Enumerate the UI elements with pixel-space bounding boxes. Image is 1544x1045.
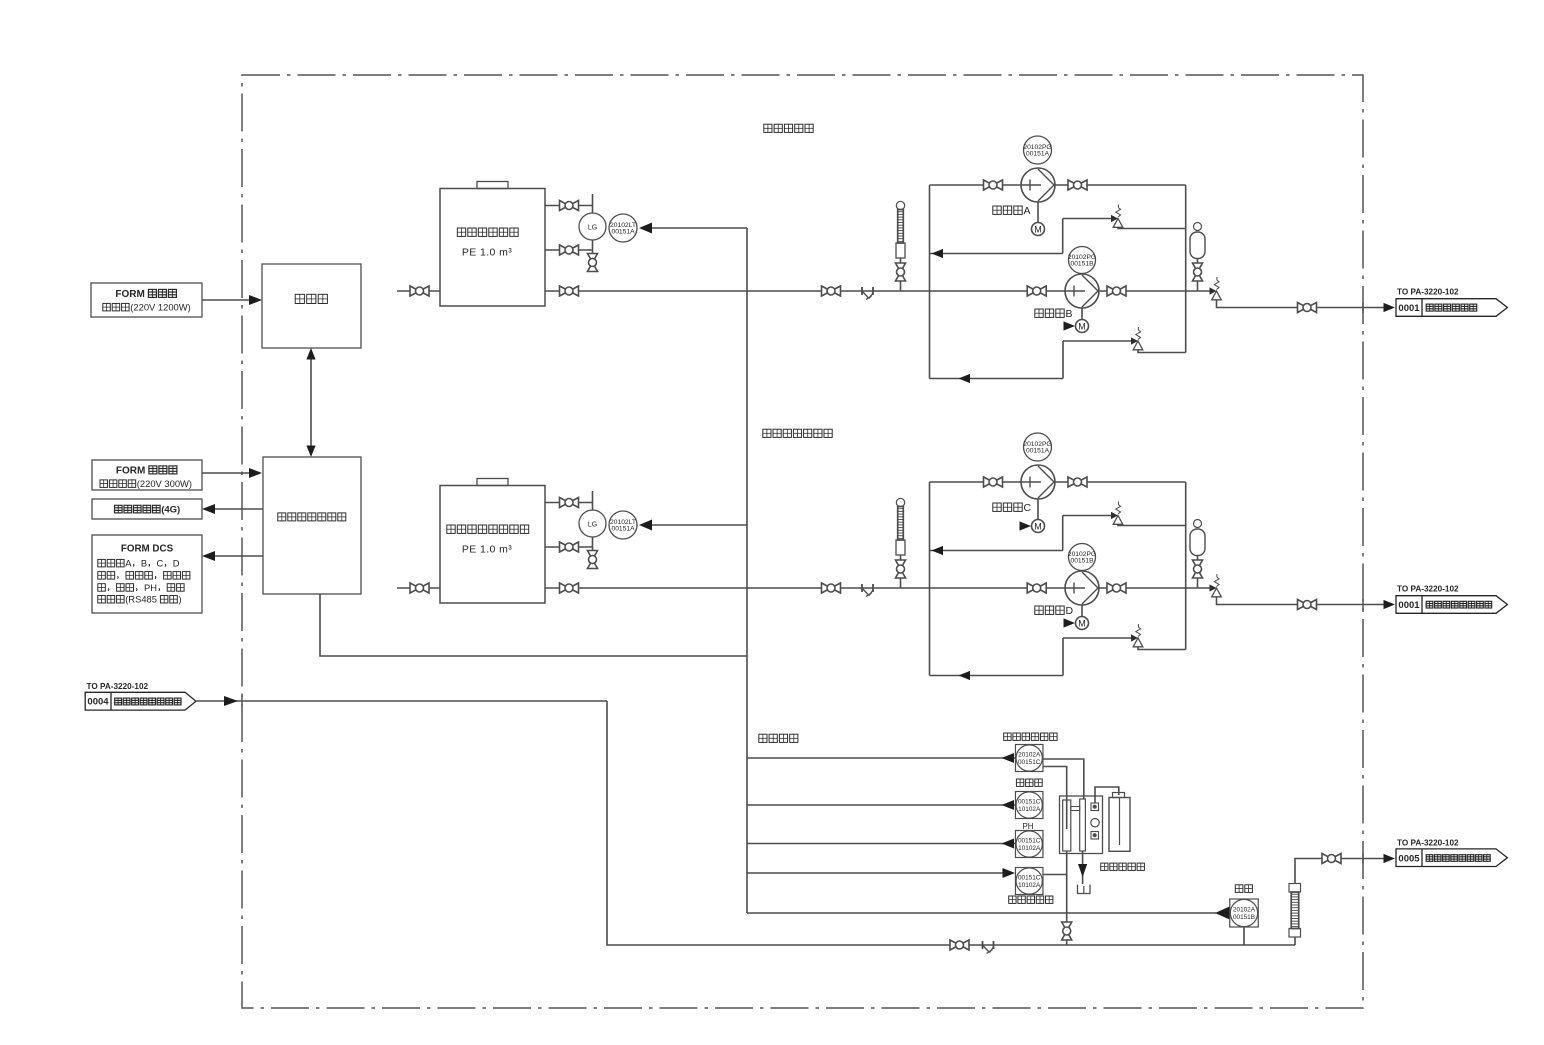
pump metering D [loop CD] xyxy=(1065,571,1099,605)
arrow to flag 0005 xyxy=(1384,854,1396,863)
pump metering B [loop AB] xyxy=(1065,274,1099,308)
flag 0004 circulating water inlet xyxy=(85,692,196,710)
wire relief1 inlet [loop AB] xyxy=(1063,218,1111,220)
label pump1 加药泵C [loop CD] xyxy=(993,503,1001,511)
label online monitoring section xyxy=(759,734,767,742)
valve tank fill (antiscalant) xyxy=(410,286,420,296)
instrument pressure gauge 20102PG lower [loop AB] xyxy=(1069,247,1096,274)
svg-text:00151B: 00151B xyxy=(1233,914,1255,921)
arrow to flag xyxy=(1384,600,1396,609)
wire relief1 return [loop CD] xyxy=(930,550,1063,552)
wire pump2 motor link [loop AB] xyxy=(1081,308,1083,320)
wire relief1 return drop [loop CD] xyxy=(1062,516,1064,551)
wire pump suction riser [loop AB] xyxy=(929,185,931,379)
wire relief1 outlet [loop AB] xyxy=(1118,227,1186,228)
svg-text:A: A xyxy=(125,558,132,569)
svg-text:): ) xyxy=(179,594,182,605)
valve tank port2 (corrosion inhibitor) xyxy=(560,542,570,552)
tank fill stub (corrosion inhibitor) xyxy=(397,587,440,589)
relief valve pump2 [loop AB] xyxy=(1131,337,1138,344)
wire main power arrow xyxy=(202,299,250,301)
pulsation dampener [loop AB] xyxy=(1194,223,1202,231)
flag 0001 阻垢剂 xyxy=(1396,299,1507,317)
wire relief2 inlet [loop CD] xyxy=(1063,637,1131,639)
wire pump2 motor link [loop CD] xyxy=(1081,605,1083,617)
wire cloud platform arrow xyxy=(214,508,263,510)
label conductivity xyxy=(1016,779,1023,786)
svg-text:00151A: 00151A xyxy=(1026,151,1050,158)
valve tank fill (corrosion inhibitor) xyxy=(410,583,420,593)
svg-text:0005: 0005 xyxy=(1398,853,1420,864)
wire inlet down leg xyxy=(607,701,1295,945)
valve main header A/B xyxy=(822,286,832,296)
label polymer analyzer xyxy=(1004,733,1011,740)
tank fill stub (antiscalant) xyxy=(397,290,440,292)
valve pump1 suction [loop AB] xyxy=(984,180,994,190)
svg-text:00151A: 00151A xyxy=(1026,448,1050,455)
wire rotameter bottom xyxy=(1294,937,1296,945)
instrument pressure gauge 20102PG lower [loop CD] xyxy=(1069,544,1096,571)
tank body T1 (antiscalant) xyxy=(440,189,545,307)
relief/back-pressure valve outlet xyxy=(1210,287,1217,294)
wire sq1 to right slot xyxy=(1043,759,1084,799)
svg-text:TO PA-3220-102: TO PA-3220-102 xyxy=(1397,287,1459,296)
wire relief2 outlet [loop CD] xyxy=(1138,647,1186,650)
wire signal header vertical xyxy=(746,228,748,913)
wire pump1 motor link [loop AB] xyxy=(1037,202,1039,223)
wire relief1 return drop [loop AB] xyxy=(1062,219,1064,254)
wire pump1 motor link [loop CD] xyxy=(1037,499,1039,520)
valve outlet line xyxy=(1298,303,1308,313)
valve outlet line xyxy=(1298,600,1308,610)
wire sample outlet line xyxy=(1295,859,1384,884)
relief/back-pressure valve outlet xyxy=(1210,584,1217,591)
svg-text:00151B: 00151B xyxy=(1070,261,1094,268)
svg-text:00151B: 00151B xyxy=(1070,558,1094,565)
wire sq4 to drop xyxy=(1043,874,1067,876)
dash-dot plot boundary xyxy=(242,75,1363,1008)
wire relief2 return [loop CD] xyxy=(930,675,1064,677)
wire tank port1 (antiscalant) xyxy=(545,205,593,207)
valve tank drain (corrosion inhibitor) xyxy=(588,551,598,560)
wire discharge right riser [loop AB] xyxy=(1185,185,1187,353)
wire outlet step xyxy=(1217,597,1385,605)
svg-text:M: M xyxy=(1078,321,1086,331)
calibration column [loop CD] xyxy=(896,498,904,506)
valve self-clean drop xyxy=(1062,922,1072,931)
svg-text:C: C xyxy=(157,558,164,569)
wire main header A/B xyxy=(578,290,1210,292)
svg-text:LG: LG xyxy=(588,225,597,232)
rotameter flow indicator xyxy=(1289,884,1301,893)
panel icon square lower xyxy=(1091,832,1099,840)
svg-text:00151C: 00151C xyxy=(1018,875,1041,882)
svg-text:B: B xyxy=(1066,308,1073,320)
panel connector bar xyxy=(1071,807,1080,811)
box dianKongXiang (electric control box) xyxy=(262,264,361,348)
wire sample water inlet line xyxy=(196,700,607,702)
wire relief2 outlet [loop AB] xyxy=(1138,350,1186,353)
wire relief1 inlet [loop CD] xyxy=(1063,515,1111,517)
svg-text:00151A: 00151A xyxy=(611,229,635,236)
tank name (antiscalant) xyxy=(457,228,465,236)
svg-text:TO PA-3220-102: TO PA-3220-102 xyxy=(87,682,149,691)
wire turbidity line xyxy=(747,912,1216,914)
label pump1 加药泵A [loop AB] xyxy=(993,206,1001,214)
wire self-clean drop to sample line xyxy=(1066,851,1068,945)
panel right flow cell xyxy=(1080,799,1086,851)
svg-text:FORM DCS: FORM DCS xyxy=(121,544,174,555)
wire relief1 outlet [loop CD] xyxy=(1118,524,1186,525)
wire turbidity drop xyxy=(1243,927,1245,945)
y-strainer main header A/B xyxy=(861,287,863,295)
valve sample line xyxy=(950,940,960,950)
motor M pump2 [loop AB] xyxy=(1076,320,1089,333)
valve sample outlet xyxy=(1322,854,1332,864)
valve pump2 suction [loop CD] xyxy=(1027,583,1037,593)
wire outlet step xyxy=(1217,300,1385,308)
wire pump top line [loop AB] xyxy=(930,184,1186,186)
svg-text:10102A: 10102A xyxy=(1018,806,1041,813)
instrument pressure gauge 20102PG upper [loop CD] xyxy=(1024,433,1052,461)
tank body T2 (corrosion inhibitor) xyxy=(440,486,545,604)
tank nozzle (corrosion inhibitor) xyxy=(477,479,508,486)
panel icon square upper xyxy=(1091,803,1099,811)
svg-text:PE 1.0 m³: PE 1.0 m³ xyxy=(462,544,512,556)
wire pump top line [loop CD] xyxy=(930,481,1186,483)
wire tank port1 (corrosion inhibitor) xyxy=(545,502,593,504)
wire tank port2 (antiscalant) xyxy=(545,249,593,251)
relief valve pump1 [loop AB] xyxy=(1111,215,1118,222)
label pump2 加药泵D [loop CD] xyxy=(1035,606,1043,614)
svg-text:0001: 0001 xyxy=(1398,600,1420,611)
wire LG vent (corrosion inhibitor) xyxy=(592,491,594,510)
svg-text:M: M xyxy=(1034,521,1042,531)
arrow drain down xyxy=(1078,864,1087,877)
pump metering A [loop AB] xyxy=(1021,168,1055,202)
box FORM dianKongShi main power xyxy=(91,283,202,317)
wire analyzer line 1 xyxy=(747,757,1016,759)
svg-text:00151A: 00151A xyxy=(611,526,635,533)
valve tank port2 (antiscalant) xyxy=(560,245,570,255)
wire relief2 inlet [loop AB] xyxy=(1063,340,1131,342)
flag 0001 缓蚀增 xyxy=(1396,596,1507,614)
wire sq1 to left slot probe xyxy=(1043,767,1067,830)
wire control boxes double arrow xyxy=(310,352,312,453)
svg-text:TO PA-3220-102: TO PA-3220-102 xyxy=(1397,584,1459,593)
cleaning solution tank xyxy=(1109,798,1130,852)
wire relief2 return drop [loop AB] xyxy=(1062,341,1064,379)
wire analyzer line 3 xyxy=(747,843,1016,845)
boundary crossing tick outlet xyxy=(1362,853,1364,864)
label cleaning solution xyxy=(1101,863,1108,870)
valve tank drain (antiscalant) xyxy=(588,254,598,263)
wire relief2 return drop [loop CD] xyxy=(1062,638,1064,676)
valve pump1 discharge [loop AB] xyxy=(1068,180,1078,190)
relief valve pump2 [loop CD] xyxy=(1131,634,1138,641)
svg-text:D: D xyxy=(173,558,180,569)
valve pump2 discharge [loop AB] xyxy=(1107,286,1117,296)
motor M pump1 [loop CD] xyxy=(1032,520,1045,533)
motor M pump1 [loop AB] xyxy=(1032,223,1045,236)
wire relief2 return [loop AB] xyxy=(930,378,1064,380)
svg-text:20102A: 20102A xyxy=(1233,907,1256,914)
svg-text:00151C: 00151C xyxy=(1018,838,1041,845)
wire cleaning suction xyxy=(1095,787,1119,803)
tank name (corrosion inhibitor) xyxy=(447,525,455,533)
svg-text:0001: 0001 xyxy=(1398,303,1420,314)
valve pump1 discharge [loop CD] xyxy=(1068,477,1078,487)
analyzer panel box xyxy=(1060,796,1103,854)
y-strainer main header C/D xyxy=(861,584,863,592)
wire LG drain (corrosion inhibitor) xyxy=(592,537,594,551)
svg-text:LG: LG xyxy=(588,522,597,529)
box FORM DCS xyxy=(92,535,202,613)
boundary crossing tick inlet xyxy=(241,696,243,707)
wire LG drain (antiscalant) xyxy=(592,240,594,254)
level gauge LG (antiscalant) xyxy=(579,213,606,240)
panel left flow cell xyxy=(1063,800,1071,851)
svg-text:A: A xyxy=(1024,205,1031,217)
wire tank outlet (antiscalant) xyxy=(545,290,578,292)
svg-text:0004: 0004 xyxy=(87,697,109,708)
svg-text:D: D xyxy=(1066,605,1074,617)
wire relief1 return [loop AB] xyxy=(930,253,1063,255)
wire LG vent (antiscalant) xyxy=(592,194,594,213)
instrument square conductivity xyxy=(1015,792,1042,819)
wire tank outlet (corrosion inhibitor) xyxy=(545,587,578,589)
drain cup xyxy=(1078,885,1091,894)
box cloud monitoring platform 4G xyxy=(92,499,202,519)
instrument level transmitter 20102LT (corrosion inhibitor) xyxy=(609,511,637,539)
svg-text:PH: PH xyxy=(1022,822,1033,831)
svg-text:PH: PH xyxy=(144,582,157,593)
svg-text:10102A: 10102A xyxy=(1018,882,1041,889)
wire control box to signal header xyxy=(320,594,747,656)
wire level signal (corrosion inhibitor) xyxy=(652,524,747,526)
relief valve pump1 [loop CD] xyxy=(1111,512,1118,519)
svg-text:(220V 300W): (220V 300W) xyxy=(137,478,192,489)
cleaning tank dip tube xyxy=(1119,798,1121,846)
wire tank port2 (corrosion inhibitor) xyxy=(545,546,593,548)
y-strainer sample line xyxy=(982,941,984,949)
instrument square turbidity xyxy=(1230,899,1259,927)
svg-text:(220V 1200W): (220V 1200W) xyxy=(130,302,190,313)
wire instrument power arrow xyxy=(202,472,250,474)
svg-text:00151C: 00151C xyxy=(1018,799,1041,806)
svg-text:TO PA-3220-102: TO PA-3220-102 xyxy=(1397,839,1459,848)
svg-text:M: M xyxy=(1078,618,1086,628)
label corrosion-inhibitor dosing section xyxy=(763,429,771,437)
svg-text:FORM: FORM xyxy=(116,466,145,477)
boundary crossing tick xyxy=(1362,302,1364,313)
svg-text:B: B xyxy=(141,558,147,569)
instrument square polymer analyzer xyxy=(1015,745,1042,772)
valve tank outlet (corrosion inhibitor) xyxy=(560,583,570,593)
wire analyzer line 2 xyxy=(747,804,1016,806)
flag 0005 sample water outlet xyxy=(1396,849,1507,867)
calibration column [loop AB] xyxy=(896,201,904,209)
wire level signal (antiscalant) xyxy=(652,227,747,229)
box FORM dianKongShi instrument power xyxy=(92,460,202,490)
valve main header C/D xyxy=(822,583,832,593)
svg-text:00151C: 00151C xyxy=(1018,759,1041,766)
wire analyzer line 4 self-clean xyxy=(747,872,1003,874)
motor M pump2 [loop CD] xyxy=(1076,617,1089,630)
instrument pressure gauge 20102PG upper [loop AB] xyxy=(1024,136,1052,164)
svg-text:(4G): (4G) xyxy=(161,505,180,516)
label turbidity xyxy=(1235,885,1243,893)
wire main header C/D xyxy=(578,587,1210,589)
panel icon circle xyxy=(1091,819,1099,827)
arrow to flag xyxy=(1384,303,1396,312)
svg-text:10102A: 10102A xyxy=(1018,845,1041,852)
level gauge LG (corrosion inhibitor) xyxy=(579,510,606,537)
pump metering C [loop CD] xyxy=(1021,465,1055,499)
valve tank port1 (antiscalant) xyxy=(560,201,570,211)
pulsation dampener [loop CD] xyxy=(1194,520,1202,528)
valve tank outlet (antiscalant) xyxy=(560,286,570,296)
boundary crossing tick xyxy=(1362,599,1364,610)
wire pump suction riser [loop CD] xyxy=(929,482,931,676)
instrument level transmitter 20102LT (antiscalant) xyxy=(609,214,637,242)
valve pump2 discharge [loop CD] xyxy=(1107,583,1117,593)
svg-text:C: C xyxy=(1024,502,1032,514)
valve pump1 suction [loop CD] xyxy=(984,477,994,487)
wire discharge right riser [loop CD] xyxy=(1185,482,1187,650)
svg-text:PE 1.0 m³: PE 1.0 m³ xyxy=(462,247,512,259)
svg-text:M: M xyxy=(1034,224,1042,234)
label pump2 加药泵B [loop AB] xyxy=(1035,309,1043,317)
tank nozzle (antiscalant) xyxy=(477,182,508,189)
svg-text:20102A: 20102A xyxy=(1018,752,1041,759)
instrument square self-clean xyxy=(1015,868,1042,895)
wire DCS arrow xyxy=(214,555,263,557)
valve pump2 suction [loop AB] xyxy=(1027,286,1037,296)
wire drain from right cell xyxy=(1082,851,1084,884)
instrument square PH xyxy=(1015,831,1042,858)
label antiscalant dosing section xyxy=(764,124,772,132)
label self-clean calibration xyxy=(1009,896,1016,903)
svg-text:FORM: FORM xyxy=(115,289,144,300)
box instrument core control box (yibiao hexin kongzhixiang) xyxy=(263,457,361,594)
valve tank port1 (corrosion inhibitor) xyxy=(560,498,570,508)
svg-text:(RS485: (RS485 xyxy=(125,594,157,605)
